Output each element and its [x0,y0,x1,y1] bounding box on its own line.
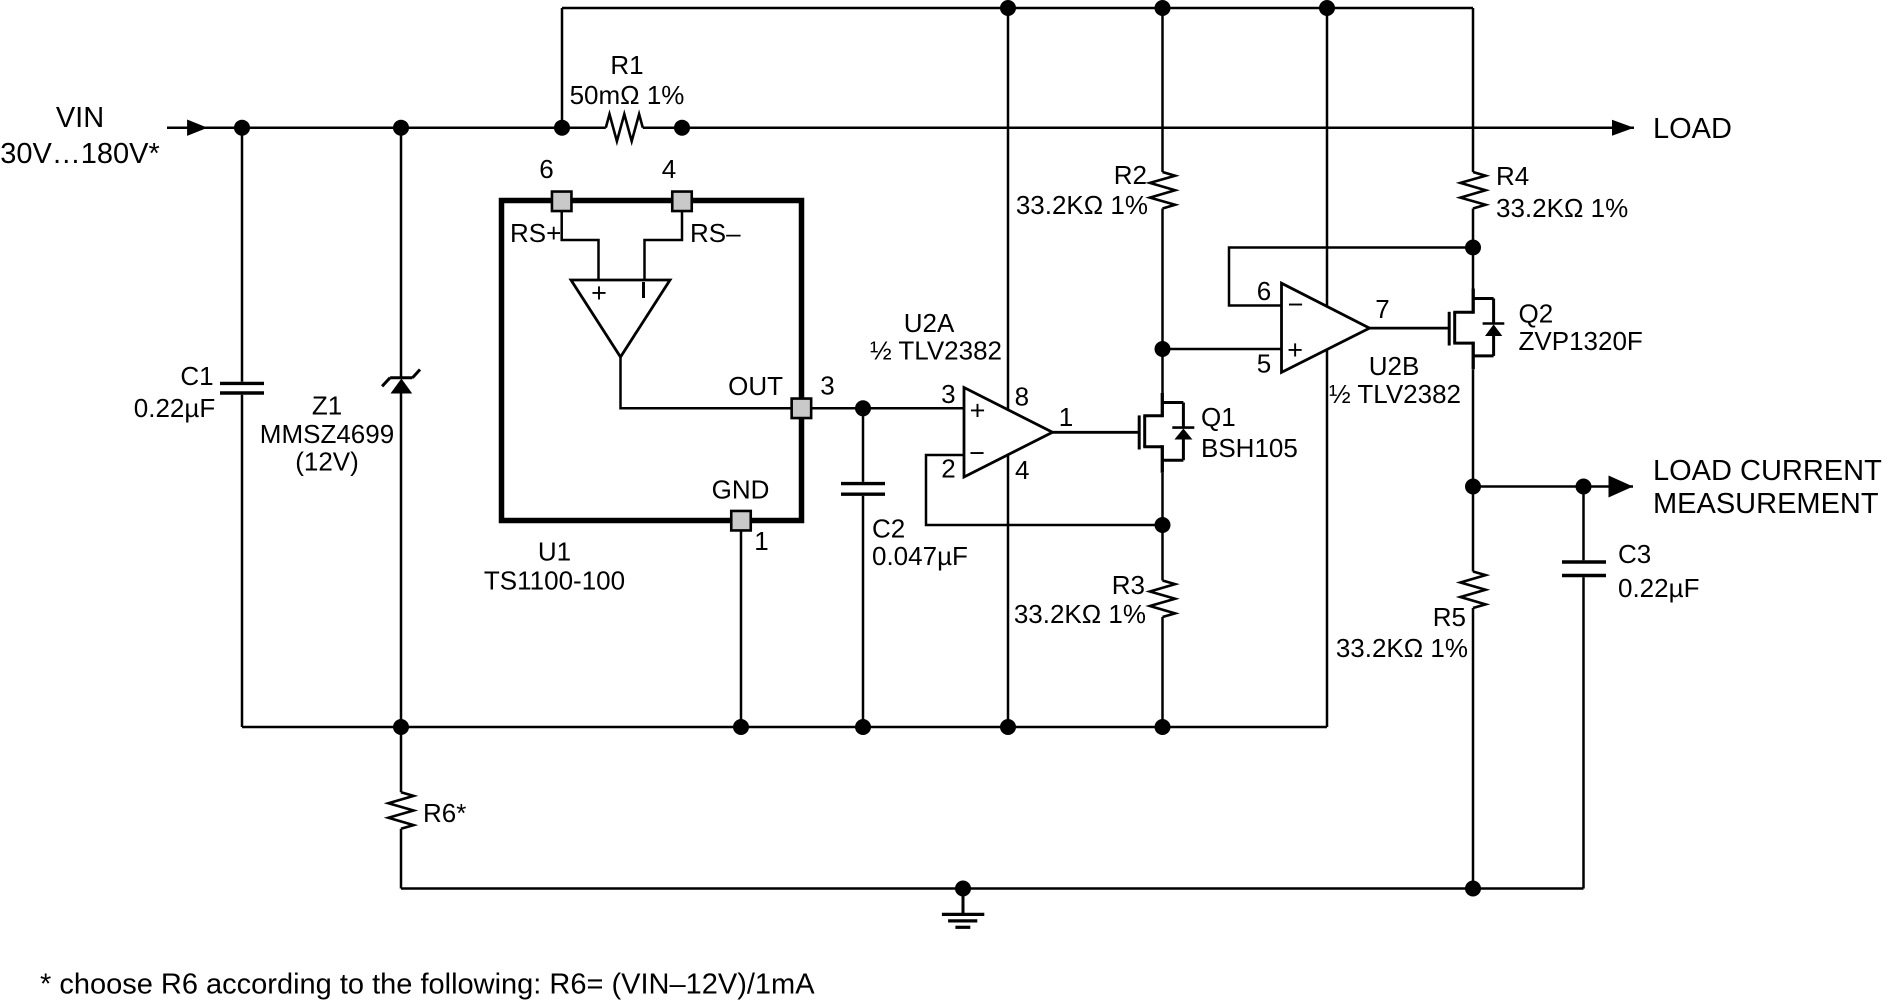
svg-text:33.2KΩ 1%: 33.2KΩ 1% [1336,633,1468,663]
svg-text:Q1: Q1 [1201,402,1236,432]
svg-text:33.2KΩ 1%: 33.2KΩ 1% [1014,599,1146,629]
svg-text:7: 7 [1375,294,1389,324]
svg-text:3: 3 [941,379,955,409]
svg-text:0.22µF: 0.22µF [134,393,215,423]
svg-text:1: 1 [754,526,768,556]
svg-text:LOAD CURRENT: LOAD CURRENT [1653,455,1882,487]
svg-text:½ TLV2382: ½ TLV2382 [1329,379,1461,409]
svg-text:ZVP1320F: ZVP1320F [1519,326,1643,356]
svg-text:C3: C3 [1618,539,1651,569]
svg-text:Z1: Z1 [312,391,342,421]
svg-text:−: − [969,438,985,468]
svg-text:+: + [1287,335,1303,365]
svg-text:½ TLV2382: ½ TLV2382 [870,336,1002,366]
svg-text:U2A: U2A [904,308,955,338]
svg-text:R5: R5 [1433,602,1466,632]
svg-text:−: − [1288,290,1304,320]
svg-text:50mΩ 1%: 50mΩ 1% [570,80,685,110]
svg-text:GND: GND [712,475,770,505]
svg-text:TS1100-100: TS1100-100 [484,566,625,596]
svg-text:5: 5 [1257,349,1271,379]
svg-text:RS+: RS+ [510,218,561,248]
svg-text:1: 1 [1059,402,1073,432]
svg-text:RS–: RS– [690,218,741,248]
svg-text:Q2: Q2 [1519,299,1554,329]
svg-text:U2B: U2B [1369,351,1420,381]
svg-text:(12V): (12V) [295,447,359,477]
svg-text:MMSZ4699: MMSZ4699 [260,419,394,449]
svg-text:+: + [591,278,607,308]
svg-text:MEASUREMENT: MEASUREMENT [1653,488,1879,520]
svg-text:4: 4 [662,154,676,184]
svg-text:8: 8 [1015,382,1029,412]
svg-text:3: 3 [820,371,834,401]
svg-text:0.22µF: 0.22µF [1618,573,1699,603]
svg-text:BSH105: BSH105 [1201,433,1298,463]
svg-text:R3: R3 [1112,570,1145,600]
svg-text:R4: R4 [1496,161,1529,191]
svg-text:+: + [970,396,986,426]
svg-text:LOAD: LOAD [1653,113,1732,145]
svg-text:4: 4 [1015,455,1029,485]
svg-text:0.047µF: 0.047µF [872,541,968,571]
svg-text:* choose R6 according to the f: * choose R6 according to the following: … [40,969,815,1001]
svg-text:6: 6 [539,154,553,184]
svg-text:R1: R1 [610,50,643,80]
svg-text:R2: R2 [1114,160,1147,190]
svg-text:VIN: VIN [56,102,104,134]
svg-text:C2: C2 [872,514,905,544]
svg-text:OUT: OUT [728,371,783,401]
svg-text:U1: U1 [538,537,571,567]
svg-text:33.2KΩ 1%: 33.2KΩ 1% [1016,190,1148,220]
svg-text:R6*: R6* [423,798,466,828]
svg-text:33.2KΩ 1%: 33.2KΩ 1% [1496,193,1628,223]
svg-text:6: 6 [1257,276,1271,306]
svg-text:2: 2 [941,453,955,483]
svg-text:C1: C1 [180,361,213,391]
svg-text:30V…180V*: 30V…180V* [0,138,160,170]
